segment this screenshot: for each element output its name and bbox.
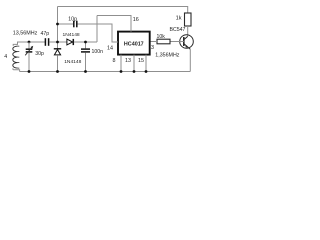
resistor R2 10k (157, 39, 170, 44)
node A junction (56, 41, 59, 44)
ground rail junctions (28, 70, 31, 73)
IC pin 13 wire (133, 55, 135, 72)
svg-text:BC547: BC547 (170, 27, 186, 33)
wire node A vertical (57, 7, 59, 43)
trimmer capacitor C3 30p (28, 42, 30, 49)
wire main tank line (17, 41, 45, 43)
svg-text:HC4017: HC4017 (124, 41, 144, 47)
wire ground rail (20, 71, 191, 73)
capacitor C1 47p (44, 38, 46, 46)
svg-text:30p: 30p (35, 51, 44, 57)
resistor R1 1k (185, 13, 192, 26)
wire pin 3 to 10k (150, 41, 157, 43)
svg-text:4: 4 (4, 54, 7, 60)
svg-text:13: 13 (125, 58, 131, 64)
svg-text:13,56MHz: 13,56MHz (13, 30, 38, 36)
IC pin 8 wire (120, 55, 122, 72)
wire base (170, 41, 184, 43)
svg-text:100n: 100n (92, 49, 104, 55)
svg-text:10k: 10k (157, 34, 166, 40)
capacitor C4 100n (85, 42, 87, 48)
svg-text:1N4148: 1N4148 (63, 32, 80, 38)
inductor L1 (13, 42, 17, 46)
wire 10p branch (58, 23, 74, 25)
IC U1 HC4017 (118, 32, 150, 55)
svg-text:3: 3 (151, 45, 154, 51)
diode D2 1N4148 (shunt) (57, 42, 59, 49)
svg-text:10p: 10p (68, 16, 77, 22)
wire top rail (node A to R1 top) (58, 7, 188, 14)
svg-text:1k: 1k (176, 16, 182, 22)
svg-text:47p: 47p (41, 31, 50, 37)
wire collector lead (187, 26, 189, 36)
svg-text:8: 8 (113, 58, 116, 64)
wire pin 16 branch (97, 16, 131, 32)
node tank junction (28, 41, 31, 44)
wire Vdd link (100n node up to pin16 wire) (96, 16, 98, 43)
svg-text:15: 15 (138, 58, 144, 64)
svg-text:1N4148: 1N4148 (64, 59, 81, 65)
svg-text:1,356MHz: 1,356MHz (155, 52, 179, 58)
IC pin 15 wire (145, 55, 147, 72)
diode D1 1N4148 (series) (67, 39, 73, 45)
transistor Q1 BC547 (180, 35, 194, 50)
capacitor C2 10p (73, 21, 75, 28)
svg-text:16: 16 (133, 17, 139, 23)
junction 10p tap (56, 23, 59, 26)
svg-text:14: 14 (107, 46, 113, 52)
node Vdd junction (84, 41, 87, 44)
wire emitter to ground rail (189, 49, 191, 71)
